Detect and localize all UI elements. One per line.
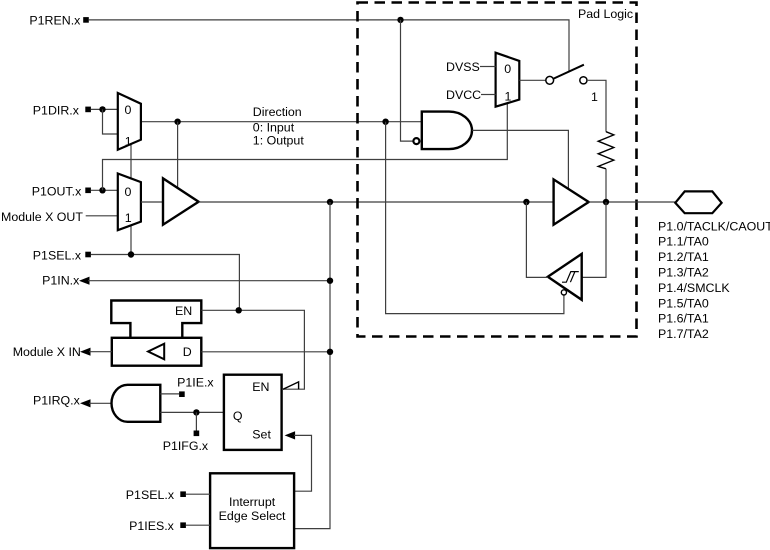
wire Module X OUT to mux input 1 — [86, 215, 118, 217]
svg-text:0: 0 — [125, 185, 132, 199]
svg-text:P1REN.x: P1REN.x — [29, 14, 81, 28]
svg-text:P1.6/TA1: P1.6/TA1 — [658, 312, 709, 326]
buffer triangle inside D block — [148, 344, 164, 360]
svg-text:EN: EN — [252, 380, 269, 394]
svg-text:Q: Q — [233, 409, 243, 423]
wire P1IFG stub — [195, 412, 197, 430]
svg-text:P1IFG.x: P1IFG.x — [163, 439, 209, 453]
wire P1REN branch down to NAND bubble — [401, 20, 414, 141]
wire P1IES to edge select box — [186, 524, 210, 526]
wire D input line — [201, 351, 330, 353]
wire P1IE to AND input — [160, 393, 179, 395]
junction P1DIR — [99, 106, 105, 112]
wire P1OUT to mux input 0 — [91, 189, 118, 191]
svg-text:1: 1 — [591, 90, 598, 104]
hysteresis glyph — [562, 272, 579, 283]
wire Direction down around to Schmitt enable bubble — [386, 122, 564, 314]
junction Q line to P1IFG — [193, 409, 199, 415]
node P1IFG.x terminal square — [194, 431, 200, 437]
junction Direction to output buffer enable — [174, 119, 180, 125]
svg-text:P1.7/TA2: P1.7/TA2 — [658, 327, 709, 341]
edge-trigger marker on FF EN input — [283, 382, 299, 389]
arrow P1IN.x output arrowhead — [79, 277, 90, 285]
mux U1 P1DIR direction select — [118, 93, 141, 150]
svg-text:Pad Logic: Pad Logic — [578, 7, 633, 21]
box B1 Interrupt Edge Select — [210, 473, 294, 548]
junction buffer line to Schmitt output — [523, 199, 529, 205]
wire mux select chain OUT mux to P1SEL line — [130, 225, 132, 255]
mux U2 P1OUT output select — [118, 174, 141, 231]
node P1OUT.x terminal square — [85, 188, 91, 194]
junction P1OUT — [99, 187, 105, 193]
svg-text:Set: Set — [252, 427, 271, 441]
svg-text:P1IN.x: P1IN.x — [42, 273, 80, 287]
junction buffer line to P1IN column — [327, 199, 333, 205]
svg-text:0: Input: 0: Input — [253, 120, 295, 134]
switch SW1 contact circle left — [546, 76, 554, 84]
switch SW1 lever — [554, 65, 584, 79]
svg-text:P1.0/TACLK/CAOUT: P1.0/TACLK/CAOUT — [658, 219, 770, 233]
svg-text:0: 0 — [125, 103, 132, 117]
flipflop FF1 interrupt flag — [224, 375, 282, 450]
wire Direction output to pad-logic NAND — [141, 121, 422, 123]
node P1REN.x terminal square — [83, 17, 89, 23]
wire buffer output long line to pad driver — [199, 201, 554, 203]
wire switch to resistor — [587, 80, 606, 131]
wire pad node down to Schmitt input — [582, 202, 606, 277]
wire EN latch enable line — [201, 310, 304, 389]
wire DVSS stub — [480, 66, 496, 68]
node P1IES.x terminal square — [180, 522, 186, 528]
svg-text:P1IRQ.x: P1IRQ.x — [33, 393, 81, 407]
wire Schmitt output to input net — [526, 202, 547, 277]
svg-text:Interrupt: Interrupt — [229, 495, 276, 509]
wire mux select chain from DIR mux to OUT mux — [130, 145, 132, 179]
bubble Schmitt enable — [561, 290, 566, 295]
svg-text:P1.5/TA0: P1.5/TA0 — [658, 296, 709, 310]
pad P1 pin hexagon — [675, 191, 721, 213]
latch L1 D block — [112, 338, 202, 366]
svg-text:P1IES.x: P1IES.x — [129, 519, 175, 533]
svg-text:0: 0 — [504, 62, 511, 76]
arrow P1IRQ.x arrowhead — [80, 399, 91, 407]
svg-text:DVCC: DVCC — [446, 88, 481, 102]
junction EN line with P1SEL — [236, 307, 242, 313]
svg-text:Edge Select: Edge Select — [219, 509, 286, 523]
wire resistor to pad node — [605, 169, 607, 202]
svg-text:1: 1 — [505, 90, 512, 104]
svg-text:1: 1 — [125, 134, 132, 148]
wire P1REN horizontal to switch — [89, 20, 569, 72]
wire P1IN line — [88, 280, 330, 282]
svg-text:1: 1 — [125, 211, 132, 225]
buffer U5 pad output driver — [554, 179, 589, 224]
svg-text:Direction: Direction — [253, 105, 302, 119]
dashed border Pad Logic — [358, 3, 637, 337]
wire P1SEL to edge select box — [186, 493, 210, 495]
node P1SEL.x terminal square — [85, 252, 91, 258]
switch SW1 contact circle right — [580, 77, 587, 84]
wire Direction down to module-out buffer enable — [177, 122, 179, 189]
node P1DIR.x terminal square — [85, 107, 91, 113]
and-gate G1 interrupt AND (mirrored) — [112, 385, 161, 422]
svg-text:P1OUT.x: P1OUT.x — [32, 184, 82, 198]
schmitt U6 input Schmitt trigger — [548, 254, 582, 300]
svg-text:P1SEL.x: P1SEL.x — [126, 488, 175, 502]
nand gate G2 pad logic — [422, 112, 472, 150]
svg-text:P1DIR.x: P1DIR.x — [33, 104, 80, 118]
svg-text:P1.2/TA1: P1.2/TA1 — [658, 250, 709, 264]
wire Q output to AND input — [160, 411, 224, 413]
wire NAND output to pad driver enable — [472, 130, 568, 189]
node P1IE.x terminal square — [179, 391, 185, 397]
bubble on NAND lower input — [413, 138, 419, 144]
arrow Module X IN arrowhead — [80, 348, 91, 356]
svg-text:P1SEL.x: P1SEL.x — [33, 249, 82, 263]
junction P1REN branch — [397, 17, 403, 23]
svg-text:Module X OUT: Module X OUT — [1, 210, 83, 224]
wire DVCC stub — [481, 94, 496, 96]
wire Module X IN line — [89, 351, 112, 353]
svg-text:1: Output: 1: Output — [253, 133, 305, 147]
wire P1DIR loop to mux input 1 — [103, 109, 118, 134]
svg-text:P1.3/TA2: P1.3/TA2 — [658, 266, 709, 280]
svg-text:D: D — [183, 345, 192, 359]
wire P1OUT branch to DVSS/DVCC mux select — [103, 104, 508, 191]
latch L1 EN block — [111, 301, 201, 338]
wire OUT mux to module-out buffer — [141, 201, 163, 203]
svg-text:P1.1/TA0: P1.1/TA0 — [658, 235, 709, 249]
wire input column x330 down to edge select — [294, 202, 330, 529]
svg-text:Module X IN: Module X IN — [13, 345, 81, 359]
svg-text:DVSS: DVSS — [446, 60, 480, 74]
wire mux output to switch — [519, 79, 546, 81]
wire P1DIR to mux input 0 — [91, 108, 118, 110]
mux U4 DVSS/DVCC pull select — [496, 53, 520, 107]
svg-text:P1.4/SMCLK: P1.4/SMCLK — [658, 281, 730, 295]
junction P1IN on input column — [327, 278, 333, 284]
wire Set input from edge select — [294, 435, 312, 491]
wire AND output to P1IRQ — [89, 402, 112, 404]
junction pad node — [603, 199, 609, 205]
resistor R1 pull resistor — [598, 132, 614, 169]
junction D line on input column — [327, 349, 333, 355]
wire pad driver output to pin — [589, 201, 676, 203]
wire P1SEL to EN latch line — [91, 255, 240, 311]
arrow Set input arrowhead — [285, 431, 296, 439]
buffer U3 module output buffer — [163, 178, 199, 224]
junction P1SEL to mux selects — [128, 251, 134, 257]
node P1SEL.x terminal square — [180, 491, 186, 497]
svg-text:EN: EN — [175, 304, 192, 318]
svg-text:P1IE.x: P1IE.x — [177, 375, 214, 389]
junction Direction to Schmitt enable — [382, 119, 388, 125]
